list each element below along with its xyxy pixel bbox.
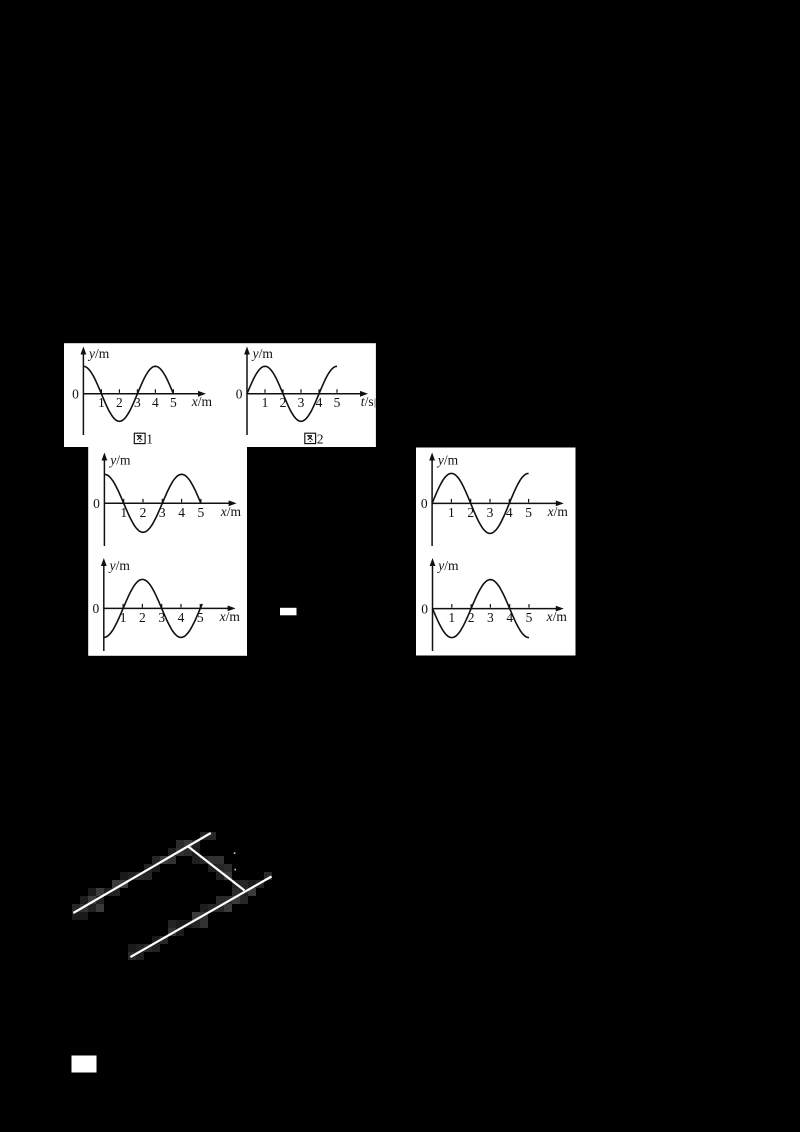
svg-text:1: 1 — [448, 505, 455, 520]
svg-text:x/m: x/m — [191, 394, 213, 409]
optionA ticks — [124, 499, 201, 503]
svg-text:y/m: y/m — [108, 558, 131, 573]
optionD ticks — [452, 604, 529, 608]
optionD y-axis — [430, 558, 436, 651]
svg-text:5: 5 — [525, 505, 532, 520]
optionC wave curve — [104, 579, 202, 637]
svg-text:2: 2 — [140, 505, 147, 520]
small gray mark right edge of top panel — [374, 399, 376, 408]
optionB tick numbers 1-5 — [448, 505, 532, 520]
fig1 wave curve — [83, 366, 173, 421]
svg-text:1: 1 — [146, 431, 153, 446]
optionD wave curve — [433, 580, 530, 638]
svg-text:5: 5 — [170, 395, 177, 410]
fig2 ticks — [265, 389, 337, 393]
svg-text:2: 2 — [280, 395, 287, 410]
svg-text:x/m: x/m — [547, 504, 569, 519]
caption 图2 — [305, 431, 324, 446]
svg-text:2: 2 — [317, 431, 324, 446]
fig1 x-axis — [83, 391, 206, 397]
svg-text:x/m: x/m — [220, 504, 242, 519]
optionC tick numbers 1-5 — [120, 610, 204, 625]
svg-text:0: 0 — [236, 387, 243, 402]
svg-text:3: 3 — [158, 610, 165, 625]
fig2 wave curve — [247, 366, 337, 421]
optionD tick numbers 1-5 — [448, 610, 532, 625]
stray white specks near rod — [234, 852, 236, 854]
svg-text:2: 2 — [468, 610, 475, 625]
svg-text:0: 0 — [72, 387, 79, 402]
svg-text:4: 4 — [178, 505, 185, 520]
fig1 tick numbers 1-5 — [98, 395, 177, 410]
svg-text:0: 0 — [421, 496, 428, 511]
svg-text:5: 5 — [526, 610, 533, 625]
optionB y-axis — [429, 453, 435, 547]
optionD x-axis — [433, 606, 564, 612]
svg-text:4: 4 — [506, 610, 513, 625]
optionA wave curve — [104, 474, 200, 532]
svg-text:0: 0 — [93, 496, 100, 511]
svg-text:t/s: t/s — [361, 394, 374, 409]
fig1 ticks — [101, 389, 173, 393]
optionB ticks — [451, 499, 528, 503]
svg-text:y/m: y/m — [87, 346, 110, 361]
svg-text:y/m: y/m — [436, 558, 459, 573]
caption 图1 — [134, 431, 153, 446]
svg-text:y/m: y/m — [251, 346, 274, 361]
white panel: options A and C (left tall box) — [88, 446, 247, 656]
svg-text:x/m: x/m — [546, 609, 568, 624]
white panel: options B and D (right tall box) — [416, 448, 576, 656]
svg-text:0: 0 — [421, 601, 428, 616]
svg-text:y/m: y/m — [108, 452, 131, 467]
white panel: figure 1 and 2 (top box) — [64, 343, 376, 447]
optionC x-axis — [104, 606, 236, 612]
svg-text:x/m: x/m — [219, 609, 241, 624]
optionC y-axis — [101, 558, 107, 651]
svg-text:3: 3 — [298, 395, 305, 410]
svg-text:1: 1 — [98, 395, 105, 410]
svg-text:4: 4 — [152, 395, 159, 410]
svg-text:1: 1 — [448, 610, 455, 625]
svg-text:3: 3 — [487, 505, 494, 520]
fig1 y-axis — [81, 347, 87, 436]
optionB wave curve — [432, 473, 528, 533]
optionA x-axis — [104, 500, 236, 506]
svg-text:5: 5 — [198, 505, 205, 520]
svg-text:y/m: y/m — [436, 452, 459, 467]
fig2 y-axis — [244, 347, 250, 436]
svg-text:0: 0 — [93, 601, 100, 616]
optionA tick numbers 1-5 — [120, 505, 204, 520]
fig2 x-axis — [247, 391, 368, 397]
optionC ticks — [123, 604, 200, 608]
svg-text:2: 2 — [139, 610, 146, 625]
svg-text:2: 2 — [116, 395, 123, 410]
sliding rod across rails — [189, 847, 245, 891]
svg-text:3: 3 — [134, 395, 141, 410]
rails drawing: jpeg-artifact blocks — [72, 832, 272, 960]
svg-text:4: 4 — [178, 610, 185, 625]
svg-text:2: 2 — [467, 505, 474, 520]
white rectangle marker bottom-left — [72, 1056, 97, 1073]
fig2 tick numbers 1-5 — [262, 395, 341, 410]
optionA y-axis — [102, 453, 108, 547]
optionB x-axis — [432, 501, 564, 507]
svg-text:3: 3 — [487, 610, 494, 625]
svg-text:4: 4 — [316, 395, 323, 410]
rail top (inclined track) — [73, 833, 211, 913]
svg-text:5: 5 — [334, 395, 341, 410]
svg-text:1: 1 — [262, 395, 269, 410]
white dash marker — [280, 608, 297, 616]
rail bottom (inclined track) — [130, 877, 271, 958]
